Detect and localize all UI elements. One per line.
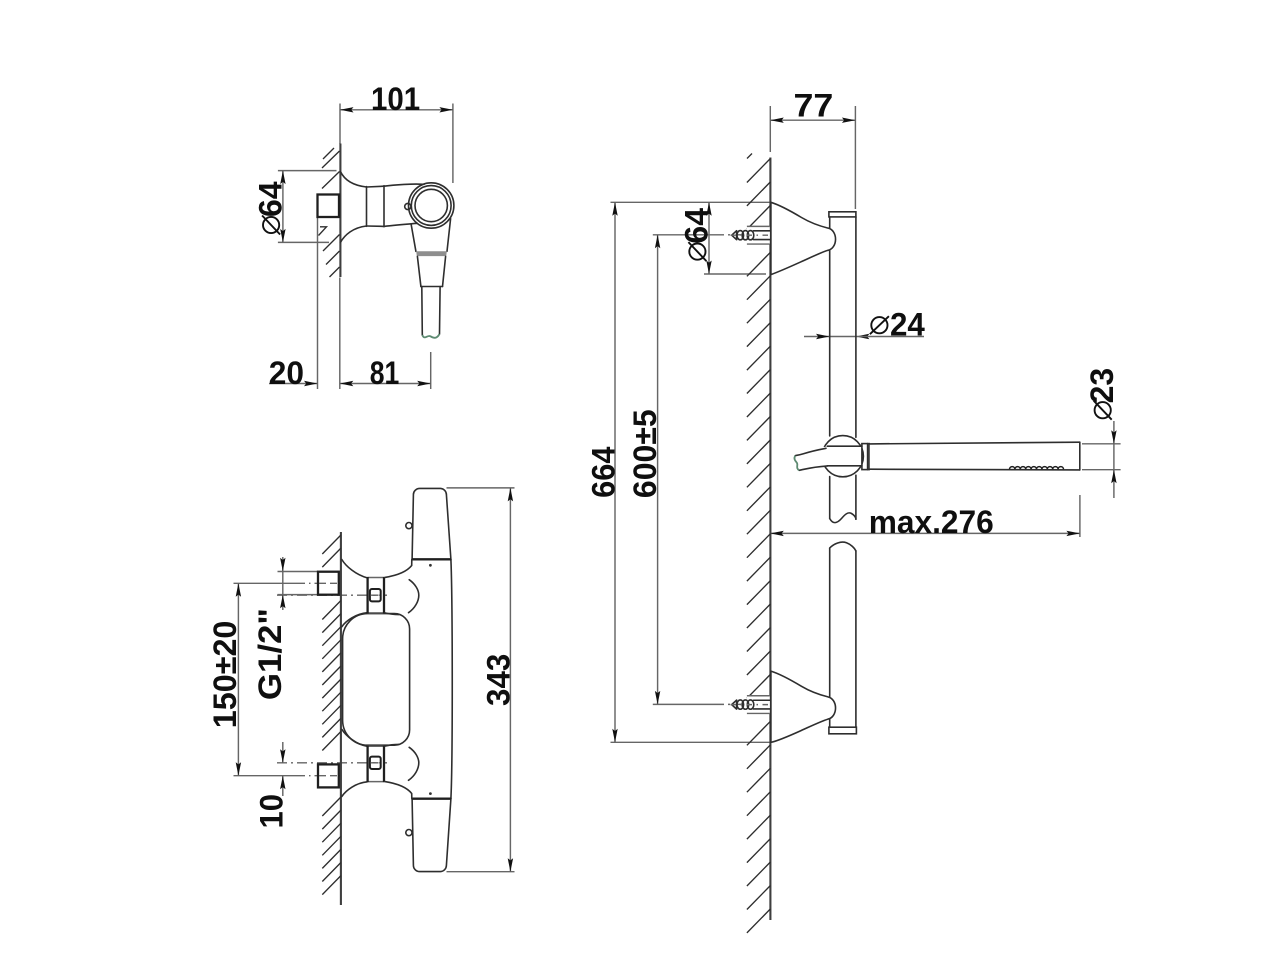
svg-text:600±5: 600±5 — [627, 409, 663, 498]
svg-text:101: 101 — [371, 81, 420, 117]
svg-text:64: 64 — [252, 181, 288, 217]
svg-text:23: 23 — [1084, 368, 1120, 404]
svg-text:81: 81 — [370, 356, 400, 392]
svg-text:20: 20 — [269, 355, 304, 391]
svg-text:150±20: 150±20 — [207, 621, 243, 729]
svg-text:G1/2": G1/2" — [253, 608, 288, 700]
svg-text:max.276: max.276 — [869, 504, 994, 540]
svg-text:64: 64 — [679, 208, 715, 244]
svg-text:24: 24 — [890, 306, 925, 342]
svg-text:664: 664 — [586, 446, 622, 498]
svg-text:343: 343 — [480, 654, 516, 706]
svg-text:77: 77 — [793, 88, 833, 124]
svg-text:10: 10 — [253, 794, 290, 829]
